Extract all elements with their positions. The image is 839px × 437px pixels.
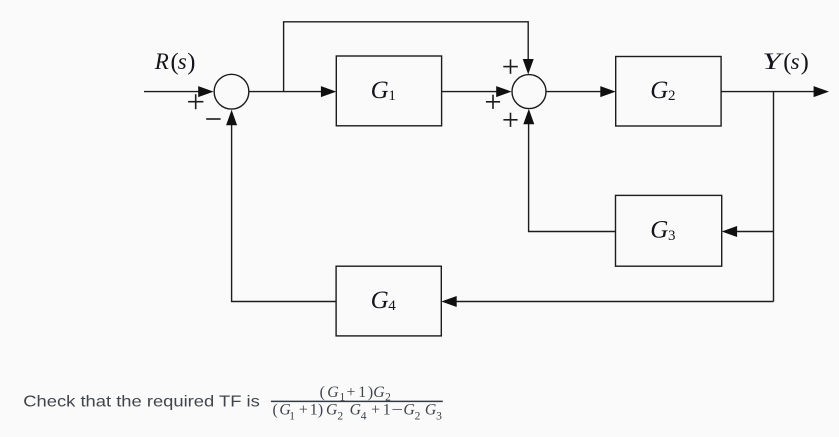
svg-text:): ) xyxy=(801,49,809,76)
svg-text:2: 2 xyxy=(337,411,343,423)
node R(s) input label xyxy=(154,49,196,76)
summing junction S2 xyxy=(512,75,546,109)
arrowhead into G1 xyxy=(321,86,336,97)
svg-text:s: s xyxy=(791,49,800,74)
wire input line into summing junction S1 xyxy=(144,91,199,93)
block G3 xyxy=(616,195,722,266)
formula fraction bar xyxy=(271,400,443,402)
wire G4 output left and up to S1 bottom xyxy=(232,123,337,302)
svg-text:+: + xyxy=(347,384,356,401)
block G2 xyxy=(616,57,721,127)
arrowhead into S1 bottom xyxy=(226,110,237,125)
node Y(s) output label xyxy=(762,49,808,76)
svg-text:1: 1 xyxy=(310,401,318,418)
svg-text:2: 2 xyxy=(415,411,421,423)
wire S1 output to block G1 xyxy=(249,91,323,93)
svg-text:2: 2 xyxy=(668,88,676,104)
svg-text:1: 1 xyxy=(358,384,366,401)
svg-text:1: 1 xyxy=(388,88,396,104)
svg-text:+: + xyxy=(371,401,380,418)
wire feedforward branch from node after S1 up and across to S2 top xyxy=(284,22,529,92)
svg-text:G: G xyxy=(371,77,389,104)
svg-text:4: 4 xyxy=(388,298,396,314)
arrowhead into S2 left xyxy=(496,86,511,97)
svg-text:Check that the required TF is: Check that the required TF is xyxy=(23,393,259,410)
label G3 xyxy=(650,217,675,244)
label plus sign at S2 bottom input xyxy=(503,113,517,127)
arrowhead into S2 top xyxy=(523,59,534,74)
svg-text:): ) xyxy=(318,401,323,418)
svg-text:Y: Y xyxy=(762,49,784,74)
svg-text:(: ( xyxy=(320,384,325,401)
label minus sign at S1 bottom input xyxy=(206,118,220,120)
bottom caption text xyxy=(23,393,259,410)
svg-text:G: G xyxy=(350,401,362,418)
svg-text:4: 4 xyxy=(361,411,367,423)
label G4 xyxy=(371,287,397,314)
block G1 xyxy=(336,56,441,126)
formula denominator (G1+1)G2 G4+1-G2 G3 xyxy=(273,401,443,422)
label plus sign at S2 top input xyxy=(503,59,518,73)
arrowhead into G3 right xyxy=(722,226,737,237)
label G1 xyxy=(371,77,396,104)
wire G1 output to S2 xyxy=(442,91,498,93)
svg-text:s: s xyxy=(178,49,187,74)
wire feedback into G4 xyxy=(455,301,774,303)
svg-text:G: G xyxy=(371,287,389,314)
svg-text:1: 1 xyxy=(289,411,295,423)
svg-text:G: G xyxy=(373,384,385,401)
svg-text:G: G xyxy=(650,77,668,104)
svg-text:+: + xyxy=(299,401,308,418)
svg-text:3: 3 xyxy=(668,228,676,244)
wire S2 output to block G2 xyxy=(546,91,602,93)
wire feedback branch into G3 xyxy=(735,231,774,233)
formula numerator (G1+1)G2 xyxy=(320,384,392,404)
svg-text:3: 3 xyxy=(436,411,442,423)
svg-text:G: G xyxy=(327,384,339,401)
block G4 xyxy=(336,266,441,336)
svg-text:): ) xyxy=(187,49,195,76)
svg-text:G: G xyxy=(425,401,437,418)
arrowhead output Y(s) xyxy=(814,86,829,97)
arrowhead into S2 bottom xyxy=(523,109,534,124)
svg-text:G: G xyxy=(650,217,668,244)
arrowhead into S1 left xyxy=(198,86,213,97)
label plus sign at S2 left input xyxy=(486,95,500,109)
wire feedback vertical from output node down xyxy=(773,92,775,302)
svg-text:R: R xyxy=(154,49,169,74)
wire G2 output to Y(s) xyxy=(721,91,815,93)
arrowhead into G2 xyxy=(600,86,615,97)
svg-text:−: − xyxy=(392,401,404,418)
label G2 xyxy=(650,77,675,104)
svg-text:G: G xyxy=(326,401,338,418)
svg-text:G: G xyxy=(403,401,415,418)
summing junction S1 xyxy=(214,74,249,109)
label plus sign at S1 left input xyxy=(188,94,203,109)
wire G3 output left and up to S2 bottom xyxy=(529,122,616,232)
arrowhead into G4 right xyxy=(441,296,456,307)
svg-text:1: 1 xyxy=(383,401,391,418)
svg-text:(: ( xyxy=(273,401,278,418)
